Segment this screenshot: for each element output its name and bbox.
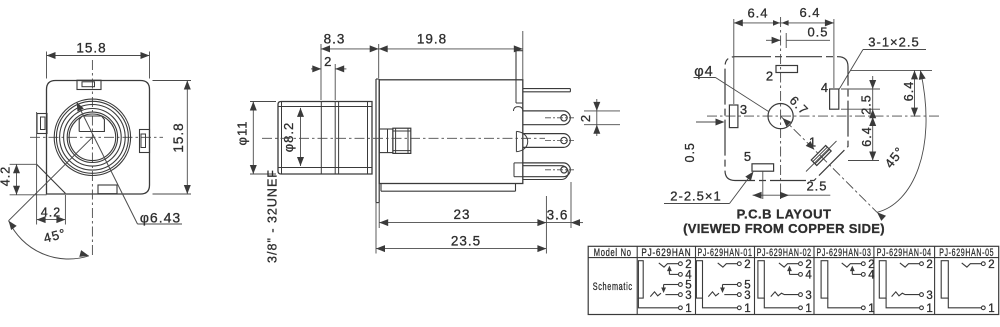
svg-text:(VIEWED FROM COPPER SIDE): (VIEWED FROM COPPER SIDE)	[683, 221, 885, 236]
svg-text:0.5: 0.5	[807, 25, 828, 40]
svg-text:2: 2	[988, 259, 995, 271]
svg-text:PJ-629HAN-02: PJ-629HAN-02	[757, 247, 812, 259]
svg-text:φ11: φ11	[235, 121, 250, 146]
svg-text:3/8" - 32UNEF: 3/8" - 32UNEF	[266, 169, 280, 263]
svg-text:PJ-629HAN-01: PJ-629HAN-01	[698, 247, 753, 259]
svg-text:5: 5	[744, 149, 752, 164]
svg-text:2: 2	[578, 114, 593, 122]
svg-text:3.6: 3.6	[547, 208, 569, 223]
svg-text:PJ-629HAN-05: PJ-629HAN-05	[939, 247, 994, 259]
svg-text:4.2: 4.2	[41, 206, 61, 220]
svg-text:P.C.B LAYOUT: P.C.B LAYOUT	[737, 207, 832, 222]
svg-text:15.8: 15.8	[76, 41, 106, 56]
svg-text:3: 3	[685, 290, 692, 302]
svg-text:6.4: 6.4	[747, 6, 768, 21]
svg-text:23.5: 23.5	[451, 234, 481, 249]
svg-text:φ8.2: φ8.2	[281, 122, 296, 153]
svg-text:1: 1	[988, 303, 995, 315]
svg-text:Model No: Model No	[594, 247, 632, 259]
svg-text:2-2.5×1: 2-2.5×1	[670, 189, 721, 204]
svg-text:PJ-629HAN-03: PJ-629HAN-03	[817, 247, 872, 259]
svg-text:15.8: 15.8	[171, 122, 186, 152]
svg-text:1: 1	[868, 303, 875, 315]
svg-text:19.8: 19.8	[417, 32, 447, 47]
svg-text:4: 4	[821, 80, 829, 95]
svg-text:4: 4	[868, 270, 875, 282]
svg-text:1: 1	[805, 303, 812, 315]
svg-text:2: 2	[926, 259, 933, 271]
svg-text:4: 4	[805, 270, 812, 282]
svg-text:2: 2	[324, 54, 332, 69]
svg-text:3: 3	[740, 102, 748, 117]
svg-text:6.4: 6.4	[860, 126, 874, 146]
svg-text:1: 1	[926, 303, 933, 315]
svg-text:PJ-629HAN-04: PJ-629HAN-04	[877, 247, 932, 259]
svg-text:2: 2	[744, 259, 751, 271]
svg-text:2: 2	[766, 69, 774, 84]
svg-text:6.4: 6.4	[902, 81, 916, 101]
svg-text:4.2: 4.2	[0, 166, 13, 186]
svg-text:3-1×2.5: 3-1×2.5	[868, 35, 919, 50]
svg-text:2.5: 2.5	[806, 179, 827, 194]
svg-text:φ6.43: φ6.43	[140, 210, 181, 226]
svg-text:23: 23	[453, 207, 470, 222]
svg-text:6.4: 6.4	[799, 5, 820, 20]
svg-text:3: 3	[805, 290, 812, 302]
svg-text:Schematic: Schematic	[593, 281, 633, 293]
svg-text:0.5: 0.5	[683, 142, 697, 162]
svg-text:8.3: 8.3	[324, 32, 346, 47]
svg-text:3: 3	[744, 290, 751, 302]
svg-text:1: 1	[685, 303, 692, 315]
svg-text:2.5: 2.5	[860, 94, 874, 114]
svg-text:1: 1	[744, 303, 751, 315]
svg-text:PJ-629HAN: PJ-629HAN	[641, 247, 691, 259]
svg-text:3: 3	[926, 290, 933, 302]
